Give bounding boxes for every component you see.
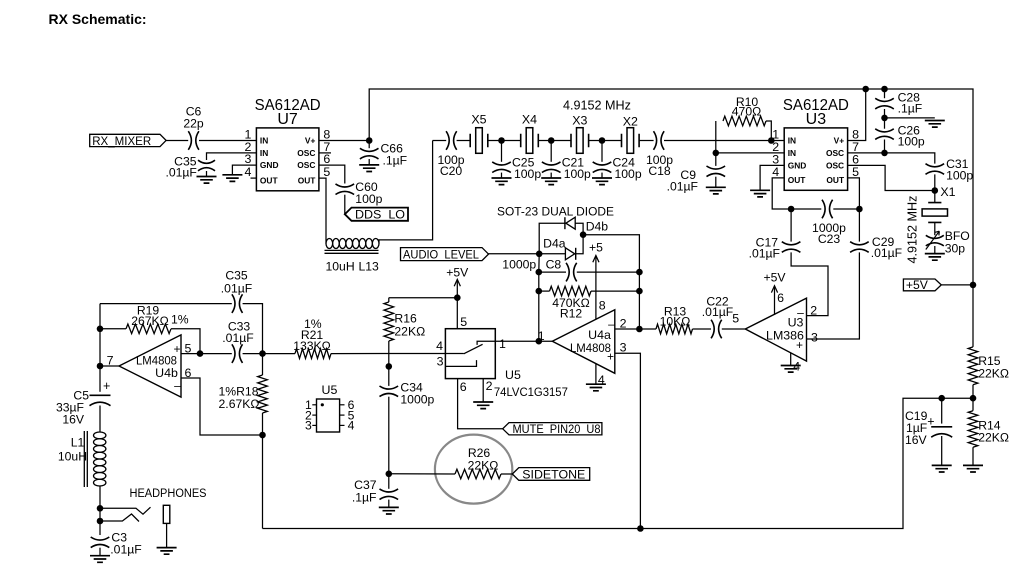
svg-text:470Ω: 470Ω	[732, 105, 761, 119]
svg-text:3: 3	[620, 340, 627, 354]
svg-text:133KΩ: 133KΩ	[293, 339, 331, 353]
svg-text:HEADPHONES: HEADPHONES	[130, 486, 207, 500]
svg-text:+5V: +5V	[446, 266, 469, 280]
svg-text:1%: 1%	[171, 313, 189, 327]
svg-text:3: 3	[437, 355, 444, 369]
svg-text:6: 6	[323, 152, 330, 166]
svg-text:5: 5	[732, 312, 739, 326]
svg-text:2: 2	[620, 316, 627, 330]
svg-text:.01µF: .01µF	[110, 543, 141, 557]
svg-text:4: 4	[793, 360, 800, 374]
svg-text:100p: 100p	[514, 167, 541, 181]
svg-text:AUDIO_LEVEL: AUDIO_LEVEL	[403, 247, 479, 261]
svg-text:V+: V+	[305, 136, 316, 146]
svg-text:7: 7	[107, 354, 114, 368]
svg-text:C8: C8	[546, 257, 562, 271]
svg-text:–: –	[608, 317, 615, 331]
svg-text:+5V: +5V	[906, 278, 929, 292]
svg-text:5: 5	[460, 315, 467, 329]
svg-text:X2: X2	[623, 115, 638, 129]
svg-text:.01µF: .01µF	[165, 166, 196, 180]
svg-text:16V: 16V	[62, 413, 85, 427]
svg-text:100p: 100p	[946, 168, 973, 182]
svg-text:8: 8	[599, 299, 606, 313]
svg-text:2: 2	[810, 304, 817, 318]
svg-text:22KΩ: 22KΩ	[468, 458, 499, 472]
svg-text:.1µF: .1µF	[352, 491, 377, 505]
svg-text:X5: X5	[471, 112, 486, 126]
svg-text:74LVC1G3157: 74LVC1G3157	[494, 385, 568, 399]
svg-text:IN: IN	[260, 136, 268, 146]
svg-text:OSC: OSC	[297, 148, 315, 158]
svg-text:4: 4	[244, 165, 251, 179]
svg-text:U3: U3	[806, 111, 827, 128]
svg-text:5: 5	[323, 165, 330, 179]
svg-text:16V: 16V	[905, 433, 928, 447]
svg-text:100p: 100p	[615, 167, 642, 181]
svg-text:GND: GND	[788, 160, 807, 170]
svg-text:1000p: 1000p	[502, 257, 536, 271]
svg-text:+: +	[607, 350, 614, 364]
svg-text:3: 3	[811, 331, 818, 345]
svg-text:U5: U5	[322, 383, 338, 397]
svg-text:2.67KΩ: 2.67KΩ	[219, 397, 260, 411]
svg-text:267KΩ: 267KΩ	[131, 314, 169, 328]
svg-text:U7: U7	[277, 111, 298, 128]
svg-text:6: 6	[777, 291, 784, 305]
svg-text:1000p: 1000p	[400, 393, 434, 407]
svg-text:.01µF: .01µF	[871, 246, 902, 260]
svg-text:OSC: OSC	[826, 148, 844, 158]
svg-text:RX_MIXER: RX_MIXER	[92, 134, 151, 148]
svg-text:30p: 30p	[945, 241, 966, 255]
svg-text:+: +	[927, 415, 934, 429]
svg-text:.01µF: .01µF	[221, 282, 252, 296]
svg-text:+5: +5	[589, 241, 603, 255]
svg-text:U5: U5	[505, 368, 521, 382]
svg-text:OUT: OUT	[826, 175, 845, 185]
svg-text:100p: 100p	[564, 167, 591, 181]
svg-text:4: 4	[348, 419, 355, 433]
svg-text:3: 3	[244, 152, 251, 166]
svg-text:OSC: OSC	[826, 160, 844, 170]
svg-text:.01µF: .01µF	[702, 305, 733, 319]
svg-text:10KΩ: 10KΩ	[660, 314, 691, 328]
svg-text:–: –	[797, 305, 804, 319]
svg-text:.1µF: .1µF	[383, 154, 408, 168]
svg-text:GND: GND	[260, 160, 279, 170]
svg-text:R12: R12	[560, 307, 583, 321]
svg-text:3: 3	[305, 419, 312, 433]
svg-text:.01µF: .01µF	[667, 179, 698, 193]
svg-text:V+: V+	[834, 136, 845, 146]
svg-text:4.9152 MHz: 4.9152 MHz	[563, 99, 631, 113]
svg-text:X4: X4	[522, 112, 537, 126]
svg-text:22KΩ: 22KΩ	[978, 431, 1009, 445]
svg-text:OUT: OUT	[260, 175, 279, 185]
svg-text:IN: IN	[788, 148, 796, 158]
svg-text:C23: C23	[818, 232, 841, 246]
svg-text:–: –	[174, 379, 181, 393]
svg-text:.1µF: .1µF	[898, 102, 923, 116]
svg-text:L1: L1	[71, 436, 85, 450]
svg-text:OUT: OUT	[788, 175, 807, 185]
svg-text:C18: C18	[648, 164, 671, 178]
svg-text:22KΩ: 22KΩ	[394, 324, 425, 338]
svg-text:OUT: OUT	[298, 175, 317, 185]
svg-text:SIDETONE: SIDETONE	[522, 467, 585, 481]
svg-text:+: +	[173, 342, 180, 356]
svg-text:X3: X3	[572, 113, 587, 127]
svg-text:LM4808: LM4808	[570, 341, 611, 355]
svg-text:RX Schematic:: RX Schematic:	[49, 11, 147, 27]
svg-text:4: 4	[598, 373, 605, 387]
svg-text:DDS_LO: DDS_LO	[355, 208, 405, 222]
svg-text:SOT-23 DUAL DIODE: SOT-23 DUAL DIODE	[497, 205, 614, 219]
svg-text:D4a: D4a	[543, 236, 566, 250]
svg-text:.01µF: .01µF	[749, 247, 780, 261]
svg-text:C35: C35	[225, 269, 248, 283]
svg-text:22p: 22p	[183, 117, 204, 131]
svg-text:IN: IN	[788, 136, 796, 146]
svg-text:2: 2	[486, 379, 493, 393]
svg-text:22KΩ: 22KΩ	[978, 367, 1009, 381]
svg-text:6: 6	[460, 380, 467, 394]
svg-text:5: 5	[852, 165, 859, 179]
svg-text:D4b: D4b	[586, 219, 609, 233]
svg-text:+5V: +5V	[763, 271, 786, 285]
svg-text:4: 4	[772, 165, 779, 179]
svg-text:.01µF: .01µF	[222, 331, 253, 345]
svg-text:+: +	[796, 338, 803, 352]
svg-text:100p: 100p	[898, 135, 925, 149]
svg-text:10uH: 10uH	[58, 450, 87, 464]
svg-text:MUTE_PIN20_U8: MUTE_PIN20_U8	[513, 422, 601, 436]
svg-text:1: 1	[499, 337, 506, 351]
svg-text:X1: X1	[940, 185, 955, 199]
svg-text:C20: C20	[440, 164, 463, 178]
svg-text:100p: 100p	[355, 192, 382, 206]
svg-text:+: +	[103, 379, 110, 393]
svg-text:4: 4	[436, 339, 443, 353]
svg-text:L13: L13	[359, 260, 380, 274]
svg-text:IN: IN	[260, 148, 268, 158]
svg-text:4.9152 MHz: 4.9152 MHz	[906, 196, 920, 264]
svg-text:OSC: OSC	[297, 160, 315, 170]
svg-text:10uH: 10uH	[326, 260, 355, 274]
